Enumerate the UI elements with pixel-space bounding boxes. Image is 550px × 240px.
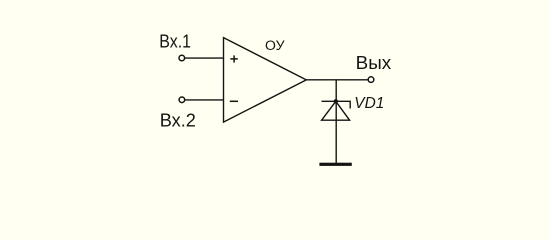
wire input 1 bbox=[185, 57, 224, 59]
wire output bbox=[306, 79, 368, 81]
svg-text:ОУ: ОУ bbox=[265, 37, 286, 53]
zener diode VD1 cathode bar with hook bbox=[322, 101, 351, 108]
svg-text:VD1: VD1 bbox=[354, 95, 384, 112]
terminal Вх.1 bbox=[179, 55, 185, 61]
svg-text:Вх.1: Вх.1 bbox=[159, 31, 191, 52]
terminal Вх.2 bbox=[179, 97, 185, 103]
terminal Вых bbox=[368, 77, 374, 83]
ground bbox=[319, 163, 351, 166]
op-amp U1 body bbox=[224, 38, 307, 123]
svg-text:Вых: Вых bbox=[356, 52, 392, 73]
op-amp inverting input marker − bbox=[230, 100, 238, 102]
op-amp non-inverting input marker + bbox=[230, 55, 238, 62]
zener diode VD1 triangle bbox=[322, 101, 350, 120]
wire from output node down through diode to ground bbox=[335, 80, 337, 163]
svg-text:Вх.2: Вх.2 bbox=[160, 109, 196, 130]
wire input 2 bbox=[185, 99, 224, 101]
junction at diode cathode bbox=[334, 99, 338, 103]
